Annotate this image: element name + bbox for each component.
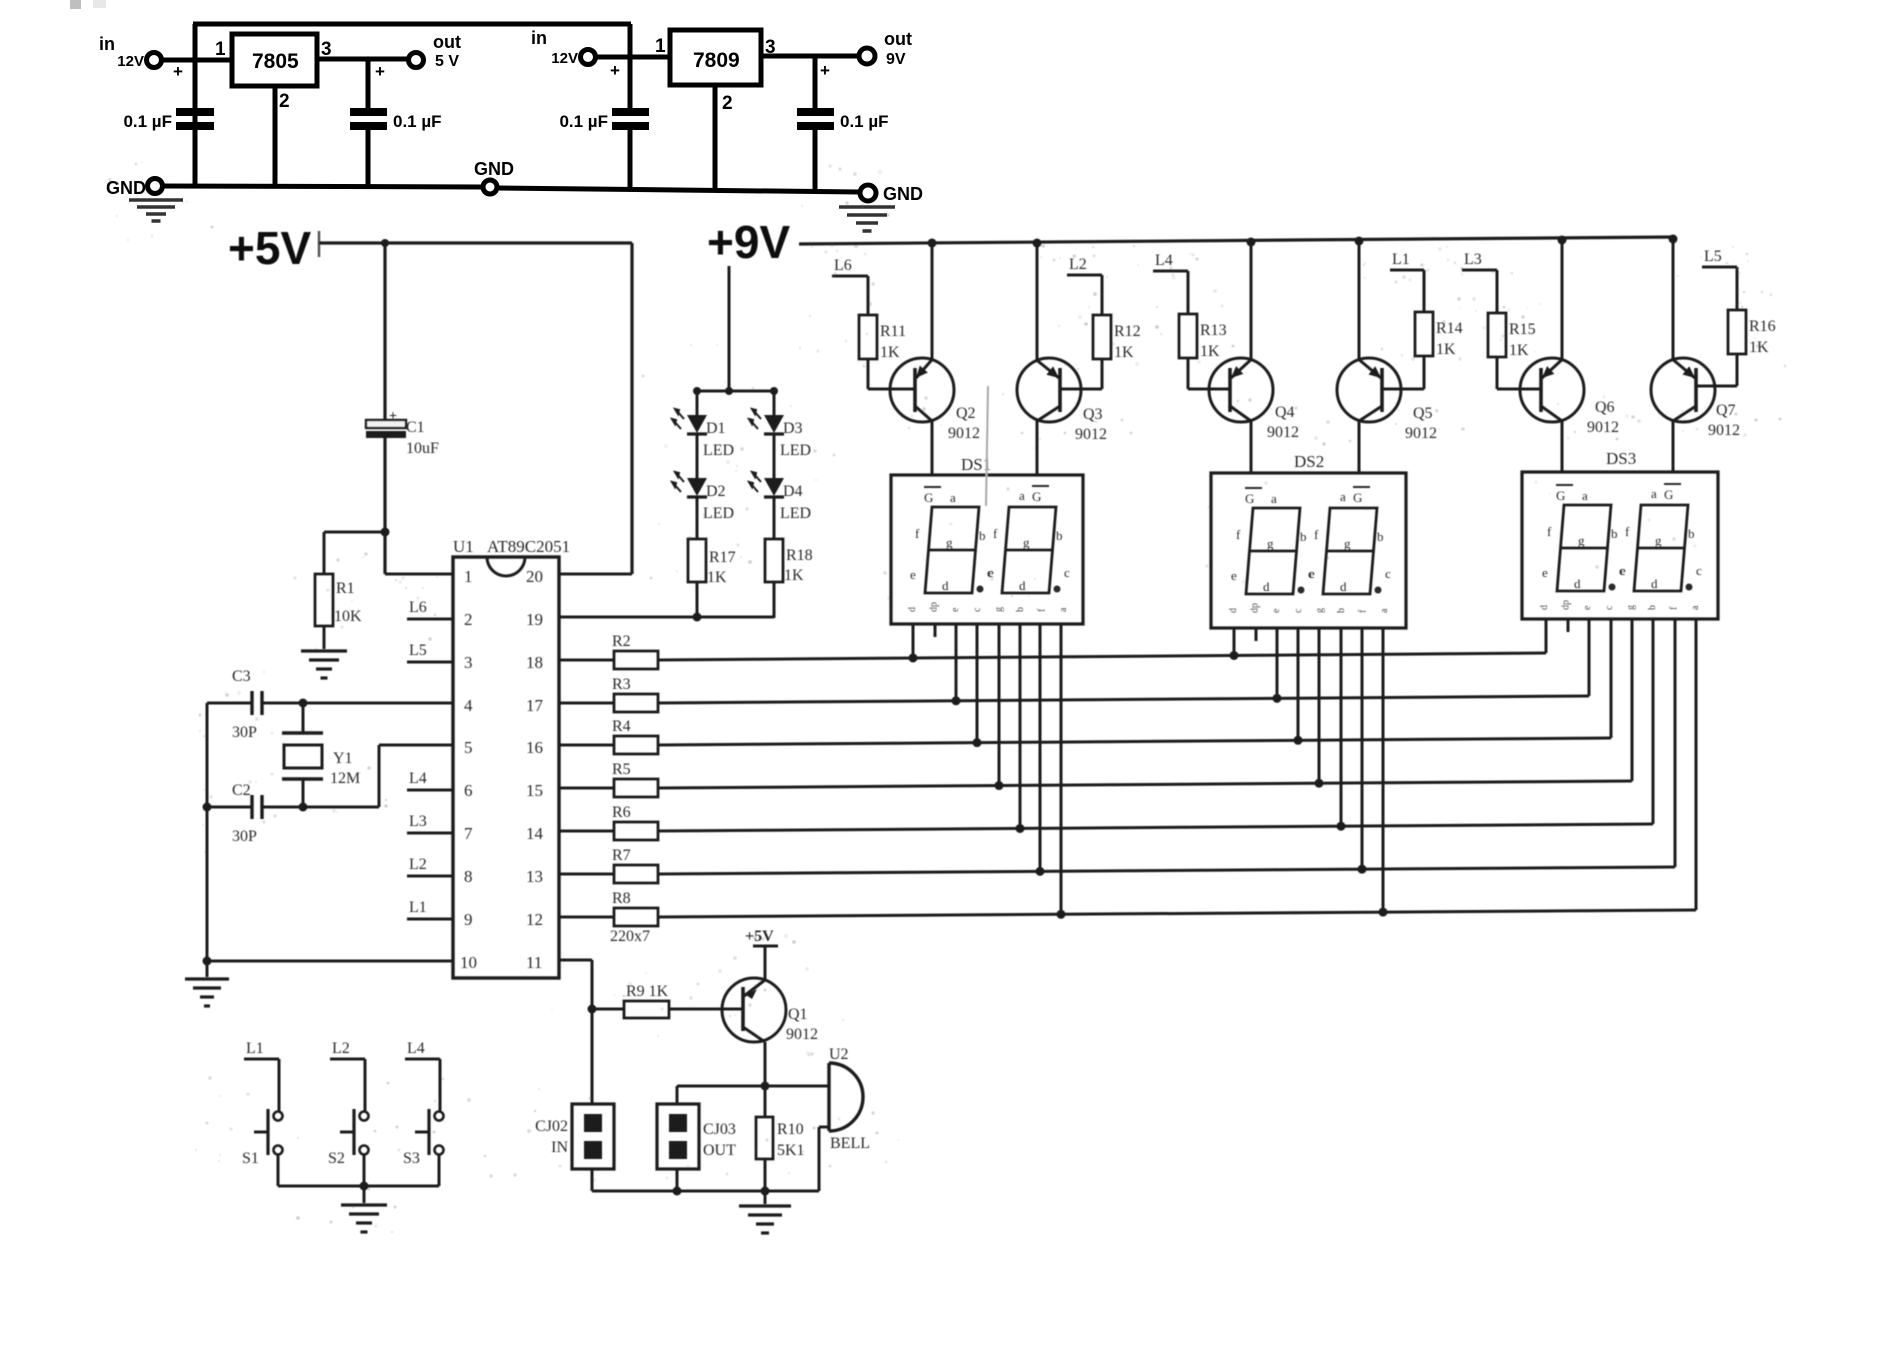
svg-text:1: 1 [655, 36, 666, 57]
svg-text:9012: 9012 [786, 1026, 818, 1043]
resistor R12 1K [1101, 275, 1104, 315]
transistor Q6 9012 [1561, 238, 1564, 360]
terminal 12V in (left) [147, 53, 162, 68]
svg-text:Y1: Y1 [333, 750, 353, 767]
svg-text:1K: 1K [1749, 339, 1769, 356]
svg-text:a: a [1690, 605, 1701, 610]
svg-text:b: b [1056, 528, 1063, 543]
switch S1 [278, 1059, 281, 1111]
svg-text:7809: 7809 [693, 49, 740, 72]
connector CJ03 OUT [657, 1104, 699, 1169]
svg-text:d: d [1574, 576, 1581, 591]
wire bell bottom lead [819, 1126, 829, 1129]
svg-text:17: 17 [526, 696, 544, 715]
svg-text:e: e [1620, 563, 1626, 578]
svg-text:R14: R14 [1436, 320, 1463, 337]
svg-text:D3: D3 [783, 420, 803, 437]
svg-text:b: b [1336, 608, 1347, 613]
wire segment bus R8 to displays [658, 910, 1696, 917]
svg-text:DS2: DS2 [1294, 452, 1324, 471]
svg-text:6: 6 [464, 781, 473, 800]
svg-text:0.1 µF: 0.1 µF [393, 112, 442, 131]
svg-text:a: a [1651, 486, 1657, 501]
svg-text:c: c [1293, 608, 1304, 613]
svg-text:out: out [433, 32, 461, 52]
svg-text:b: b [1611, 526, 1618, 541]
svg-text:R5: R5 [612, 761, 631, 778]
svg-text:1K: 1K [1200, 343, 1220, 360]
scan noise speckle [108, 161, 1786, 1234]
svg-text:dp: dp [929, 602, 940, 612]
capacitor C3 30P [250, 691, 253, 715]
ground below R10 [764, 1191, 767, 1204]
svg-text:c: c [1696, 563, 1702, 578]
wire GND rail right [497, 188, 859, 192]
svg-text:b: b [979, 528, 986, 543]
svg-text:2: 2 [279, 91, 290, 112]
svg-text:b: b [1688, 526, 1695, 541]
resistor R18 1K [765, 539, 783, 582]
svg-text:D1: D1 [706, 420, 726, 437]
transistor Q3 9012 [1036, 241, 1039, 360]
svg-text:e: e [950, 607, 961, 612]
svg-text:e: e [910, 567, 916, 582]
transistor Q1 9012 [722, 978, 786, 1042]
svg-text:f: f [993, 526, 998, 541]
wire U1 pin20 to +5V [559, 573, 632, 576]
svg-text:a: a [1271, 491, 1277, 506]
svg-text:Q6: Q6 [1595, 399, 1615, 416]
svg-text:11: 11 [526, 953, 542, 972]
svg-text:a: a [1019, 488, 1025, 503]
svg-text:R8: R8 [612, 890, 631, 907]
wire pin1 [385, 573, 453, 576]
svg-text:C2: C2 [232, 782, 251, 799]
LED D1 [687, 415, 707, 433]
regulator U 7805 [232, 34, 317, 86]
svg-text:1K: 1K [880, 344, 900, 361]
resistor R9 1K [592, 1008, 624, 1011]
svg-text:L2: L2 [1069, 256, 1087, 273]
svg-text:g: g [1267, 536, 1274, 551]
svg-text:10uF: 10uF [406, 440, 439, 457]
wire output cap drop [366, 59, 371, 108]
svg-text:R13: R13 [1200, 322, 1227, 339]
wire U1 pin11 down [559, 959, 592, 962]
svg-text:G: G [1664, 487, 1673, 502]
svg-text:d: d [1651, 576, 1658, 591]
resistor R6 220 [559, 830, 614, 833]
svg-text:R4: R4 [612, 718, 631, 735]
svg-text:c: c [1604, 605, 1615, 610]
node crystal bottom junction [299, 803, 308, 812]
svg-text:Q3: Q3 [1083, 406, 1103, 423]
svg-text:b: b [1015, 607, 1026, 612]
svg-text:R2: R2 [612, 633, 631, 650]
wire LED top node [697, 390, 774, 393]
svg-text:2: 2 [722, 93, 733, 114]
svg-text:f: f [1547, 524, 1552, 539]
svg-text:R16: R16 [1749, 318, 1776, 335]
wire U1 pin10 to ground rail [207, 960, 453, 963]
svg-text:GND: GND [474, 159, 514, 179]
svg-text:Q4: Q4 [1275, 404, 1295, 421]
svg-text:L4: L4 [407, 1040, 425, 1057]
resistor R5 220 [559, 787, 614, 790]
svg-text:1K: 1K [707, 569, 727, 586]
svg-text:a: a [950, 490, 956, 505]
svg-text:3: 3 [464, 653, 473, 672]
terminal 12V in (right) [581, 50, 596, 65]
svg-text:D4: D4 [783, 483, 803, 500]
wire RST to R1 [324, 531, 385, 534]
resistor R8 220 [559, 916, 614, 919]
resistor R14 1K [1423, 270, 1426, 312]
svg-text:LED: LED [703, 505, 734, 522]
transistor Q4 9012 [1250, 240, 1253, 360]
svg-text:G: G [1556, 488, 1565, 503]
wire U1 pin19 to LED cathodes [559, 616, 774, 619]
svg-text:OUT: OUT [703, 1142, 736, 1159]
svg-text:2: 2 [464, 610, 473, 629]
wire input cap drop (x=630) [628, 24, 633, 108]
wire R9 to Q1 base [669, 1008, 743, 1011]
capacitor 0.1uF (7805 input) [176, 108, 214, 116]
svg-text:1K: 1K [1436, 341, 1456, 358]
svg-text:a: a [1340, 489, 1346, 504]
DS2 pin wires to segment bus [1233, 628, 1236, 655]
svg-text:20: 20 [526, 567, 543, 586]
wire C1 to pin1 node [383, 438, 386, 574]
wire segment bus R2 to displays [658, 653, 1546, 660]
svg-text:g: g [1655, 533, 1662, 548]
svg-text:L6: L6 [409, 599, 427, 616]
svg-text:5 V: 5 V [435, 53, 459, 70]
svg-text:out: out [884, 29, 912, 49]
svg-text:30P: 30P [232, 828, 257, 845]
svg-text:9: 9 [464, 910, 473, 929]
svg-text:R9 1K: R9 1K [626, 983, 669, 1000]
svg-text:9012: 9012 [1267, 424, 1299, 441]
svg-text:G: G [1032, 489, 1041, 504]
svg-text:R3: R3 [612, 676, 631, 693]
wire D3-D4 [773, 434, 776, 478]
svg-text:L4: L4 [1155, 252, 1173, 269]
svg-text:e: e [1309, 566, 1315, 581]
LED D3 [764, 415, 784, 433]
svg-text:L2: L2 [332, 1040, 350, 1057]
svg-text:Q5: Q5 [1413, 405, 1433, 422]
svg-text:d: d [942, 578, 949, 593]
IC U1 AT89C2051 [453, 557, 559, 978]
connector CJ02 IN [591, 1103, 594, 1106]
svg-text:e: e [1271, 608, 1282, 613]
svg-text:9012: 9012 [1075, 426, 1107, 443]
wire D2 to R17 [696, 497, 699, 539]
svg-text:12M: 12M [330, 770, 360, 787]
svg-text:f: f [1625, 524, 1630, 539]
wire segment bus R6 to displays [658, 824, 1653, 831]
svg-text:5: 5 [464, 738, 473, 757]
wire 12V in to 7809 pin1 [596, 55, 670, 60]
svg-text:9012: 9012 [1708, 422, 1740, 439]
wire D3 anode [773, 391, 776, 415]
svg-text:LED: LED [780, 505, 811, 522]
ground below R1 [301, 649, 347, 652]
svg-text:g: g [1625, 605, 1636, 610]
wire segment bus R5 to displays [658, 781, 1632, 788]
wire +5V drop to C1/RST [383, 243, 386, 420]
svg-text:0.1 µF: 0.1 µF [559, 112, 608, 131]
svg-text:15: 15 [526, 781, 543, 800]
transistor Q2 9012 [931, 241, 934, 360]
svg-text:CJ03: CJ03 [703, 1121, 736, 1138]
transistor Q7 9012 [1672, 237, 1675, 360]
svg-text:12V: 12V [551, 50, 578, 67]
svg-text:C1: C1 [406, 419, 425, 436]
svg-text:12V: 12V [117, 53, 144, 70]
svg-text:f: f [1314, 527, 1319, 542]
svg-text:1: 1 [464, 567, 473, 586]
svg-text:e: e [1542, 565, 1548, 580]
resistor R16 1K [1736, 267, 1739, 310]
svg-text:R15: R15 [1509, 321, 1536, 338]
display DS2 (dual 7-segment) [1211, 473, 1406, 628]
resistor R4 220 [559, 744, 614, 747]
wire +9V drop to LEDs [728, 266, 731, 391]
display DS1 (dual 7-segment) [891, 475, 1083, 624]
svg-text:L6: L6 [834, 257, 852, 274]
svg-text:L4: L4 [409, 770, 427, 787]
terminal GND right [860, 185, 876, 201]
wire switch common rail [278, 1185, 439, 1188]
wire 12V input drop left [193, 24, 198, 186]
svg-text:g: g [993, 607, 1004, 612]
wire CJ03 drop [676, 1086, 679, 1104]
svg-text:R12: R12 [1114, 323, 1141, 340]
regulator U 7809 [670, 30, 761, 85]
svg-text:d: d [1539, 605, 1550, 610]
svg-text:30P: 30P [232, 724, 257, 741]
svg-text:U1: U1 [453, 537, 474, 556]
wire segment bus R4 to displays [658, 738, 1611, 745]
svg-text:a: a [1582, 488, 1588, 503]
wire output cap drop (x=815) [813, 56, 818, 108]
svg-text:f: f [1236, 527, 1241, 542]
svg-text:9012: 9012 [1405, 425, 1437, 442]
svg-text:4: 4 [464, 696, 473, 715]
svg-text:1K: 1K [784, 567, 804, 584]
svg-text:CJ02: CJ02 [535, 1118, 568, 1135]
svg-text:R7: R7 [612, 847, 631, 864]
svg-text:L3: L3 [409, 813, 427, 830]
ground symbol below left GND [129, 198, 183, 202]
scan speck top-left [70, 0, 81, 9]
svg-text:16: 16 [526, 738, 543, 757]
svg-text:a: a [1379, 608, 1390, 613]
svg-text:d: d [1019, 578, 1026, 593]
svg-text:S3: S3 [403, 1150, 420, 1167]
svg-text:D2: D2 [706, 483, 726, 500]
svg-text:+9V: +9V [707, 216, 790, 268]
svg-text:9V: 9V [886, 51, 906, 68]
wire GND rail left [162, 186, 483, 187]
svg-text:g: g [1314, 608, 1325, 613]
capacitor C2 30P [250, 795, 253, 819]
terminal out 9V [859, 48, 875, 64]
svg-text:f: f [1037, 608, 1048, 612]
wire segment bus R7 to displays [658, 867, 1675, 874]
DS1 pin wires to segment bus [912, 624, 915, 658]
terminal out 5V [409, 53, 424, 68]
svg-text:12: 12 [526, 910, 543, 929]
svg-text:d: d [907, 607, 918, 612]
svg-text:f: f [1358, 609, 1369, 613]
svg-text:+: + [820, 61, 830, 80]
svg-text:+: + [389, 409, 397, 424]
wire Q1 collector down [764, 1042, 767, 1117]
svg-text:0.1 µF: 0.1 µF [123, 112, 172, 131]
svg-text:R10: R10 [777, 1121, 804, 1138]
ground symbol below right GND [839, 205, 895, 209]
svg-text:L1: L1 [409, 899, 427, 916]
svg-text:g: g [1344, 536, 1351, 551]
svg-text:f: f [915, 526, 920, 541]
svg-text:9012: 9012 [948, 425, 980, 442]
svg-text:+: + [173, 62, 183, 81]
capacitor 0.1uF (7809 output) [797, 108, 834, 116]
scan artifact [986, 386, 988, 506]
wire left ground rail [206, 703, 209, 961]
svg-text:DS3: DS3 [1606, 449, 1636, 468]
svg-text:BELL: BELL [830, 1135, 870, 1152]
svg-text:L1: L1 [1392, 251, 1410, 268]
capacitor 0.1uF (7809 input) [612, 108, 649, 116]
svg-text:+5V: +5V [228, 222, 311, 274]
svg-text:d: d [1228, 608, 1239, 613]
svg-text:18: 18 [526, 653, 543, 672]
switch S2 [364, 1059, 367, 1111]
svg-text:a: a [1058, 607, 1069, 612]
svg-text:U2: U2 [829, 1046, 849, 1063]
svg-text:LED: LED [780, 442, 811, 459]
svg-text:Q2: Q2 [956, 405, 976, 422]
svg-text:f: f [1669, 606, 1680, 610]
svg-text:L1: L1 [246, 1040, 264, 1057]
svg-text:R17: R17 [709, 549, 736, 566]
svg-text:g: g [1578, 533, 1585, 548]
svg-text:5K1: 5K1 [777, 1142, 805, 1159]
svg-text:S1: S1 [242, 1150, 259, 1167]
wire D1 anode [696, 391, 699, 415]
wire 7809 output [761, 54, 859, 59]
svg-text:c: c [1385, 566, 1391, 581]
wire 12V in to 7805 pin1 [162, 58, 232, 63]
svg-text:220x7: 220x7 [610, 928, 650, 945]
resistor R13 1K [1187, 271, 1190, 314]
svg-text:c: c [1064, 565, 1070, 580]
svg-text:8: 8 [464, 867, 473, 886]
svg-text:7805: 7805 [252, 50, 299, 73]
svg-text:10: 10 [460, 953, 477, 972]
svg-text:G: G [1245, 491, 1254, 506]
svg-text:Q7: Q7 [1716, 402, 1736, 419]
LED D2 [687, 478, 707, 496]
DS3 pin stub (dp, unconnected) [1567, 619, 1570, 632]
resistor R17 1K [688, 539, 706, 582]
svg-text:1: 1 [215, 39, 226, 60]
svg-text:0.1 µF: 0.1 µF [840, 112, 889, 131]
resistor R15 1K [1496, 270, 1499, 313]
svg-text:g: g [946, 535, 953, 550]
wire D4 to R18 [773, 497, 776, 539]
svg-text:13: 13 [526, 867, 543, 886]
svg-text:LED: LED [703, 442, 734, 459]
resistor R3 220 [559, 702, 614, 705]
wire collector node horizontal [677, 1085, 829, 1088]
resistor R11 1K [867, 276, 870, 315]
svg-text:R1: R1 [336, 580, 355, 597]
svg-text:+5V: +5V [745, 928, 774, 945]
svg-text:G: G [924, 490, 933, 505]
wire bottom ground rail (Q1 block) [591, 1169, 594, 1191]
svg-text:L2: L2 [409, 856, 427, 873]
svg-text:C3: C3 [232, 668, 251, 685]
svg-text:L5: L5 [409, 642, 427, 659]
node RST junction [381, 528, 390, 537]
svg-text:b: b [1377, 529, 1384, 544]
svg-text:1K: 1K [1114, 344, 1134, 361]
transistor Q5 9012 [1358, 239, 1361, 360]
wire U1 pin5 to crystal bottom [379, 744, 453, 747]
svg-text:7: 7 [464, 824, 473, 843]
svg-text:L5: L5 [1704, 248, 1722, 265]
svg-text:10K: 10K [334, 608, 362, 625]
svg-text:g: g [1023, 535, 1030, 550]
svg-text:GND: GND [106, 178, 146, 198]
svg-text:19: 19 [526, 610, 543, 629]
ground at U1 pin10 rail [206, 961, 209, 977]
terminal GND middle [483, 180, 497, 194]
svg-text:G: G [1353, 490, 1362, 505]
svg-text:R18: R18 [786, 547, 813, 564]
wire 12V top rail (7805 input to 7809 input) [193, 22, 631, 27]
svg-text:c: c [972, 607, 983, 612]
switch S3 [439, 1059, 442, 1111]
capacitor C1 10uF [366, 420, 406, 428]
svg-text:S2: S2 [328, 1150, 345, 1167]
svg-text:Q1: Q1 [788, 1006, 808, 1023]
svg-text:GND: GND [883, 184, 923, 204]
wire segment bus R3 to displays [658, 696, 1589, 703]
wire 7809 pin2 to GND rail [713, 85, 718, 191]
svg-text:+: + [610, 61, 620, 80]
crystal Y1 12M [282, 731, 323, 734]
terminal GND left [148, 179, 163, 194]
ground below switches [363, 1186, 366, 1203]
svg-text:dp: dp [1250, 603, 1261, 613]
wire +9V rail [799, 237, 1673, 244]
wire U1 pin4 to crystal [207, 702, 252, 705]
wire 7805 pin2 to GND rail [273, 86, 278, 186]
resistor R10 5K1 [756, 1117, 773, 1159]
svg-text:e: e [988, 565, 994, 580]
resistor R2 220 [559, 659, 614, 662]
svg-text:+: + [375, 62, 385, 81]
svg-text:14: 14 [526, 824, 544, 843]
svg-text:IN: IN [551, 1139, 568, 1156]
display DS3 (dual 7-segment) [1522, 472, 1718, 619]
